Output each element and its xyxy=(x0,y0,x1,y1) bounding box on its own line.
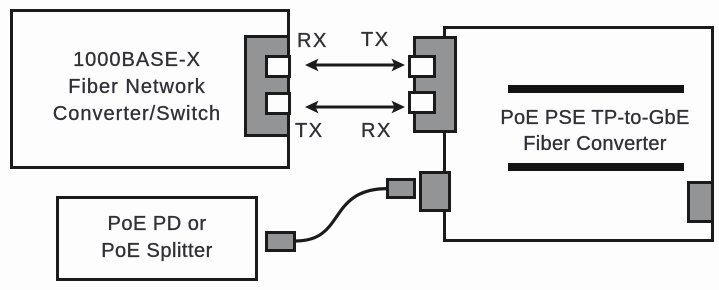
port J1-TX white square xyxy=(265,92,291,115)
label RX (top left) xyxy=(297,31,328,51)
box U2: PoE PSE TP-to-GbE Fiber Converter xyxy=(443,26,714,242)
wire: fiber link TX-RX double arrow xyxy=(305,101,405,114)
label TX (bottom left) xyxy=(295,121,324,141)
fiber bar top xyxy=(508,85,684,93)
label U1 text xyxy=(10,47,264,128)
label U2 text xyxy=(480,105,710,158)
connector J4: port on right edge of U2 xyxy=(687,181,714,223)
port J1-RX white square xyxy=(265,55,291,78)
box U1: 1000BASE-X Fiber Network Converter/Switch xyxy=(10,9,290,169)
fiber bar bottom xyxy=(508,163,684,171)
label U3 text xyxy=(56,211,258,264)
label RX (bottom right) xyxy=(361,121,392,141)
plug P1: plug at PoE PD box xyxy=(265,231,297,253)
box U3: PoE PD or PoE Splitter xyxy=(56,196,258,281)
wire: fiber link RX-TX double arrow xyxy=(305,59,405,72)
wire: curved PoE patch cable P1 to P2 xyxy=(296,189,386,241)
label TX (top right) xyxy=(361,30,390,50)
port J2-RX white square xyxy=(408,91,436,114)
port J2-TX white square xyxy=(408,55,436,78)
plug P2: RJ45 plug into J3 xyxy=(386,178,417,199)
connector J2: fiber transceiver on U2 xyxy=(413,36,457,133)
connector J3: RJ45 PoE jack on U2 xyxy=(419,171,451,212)
connector J1: fiber transceiver on U1 xyxy=(244,35,290,137)
